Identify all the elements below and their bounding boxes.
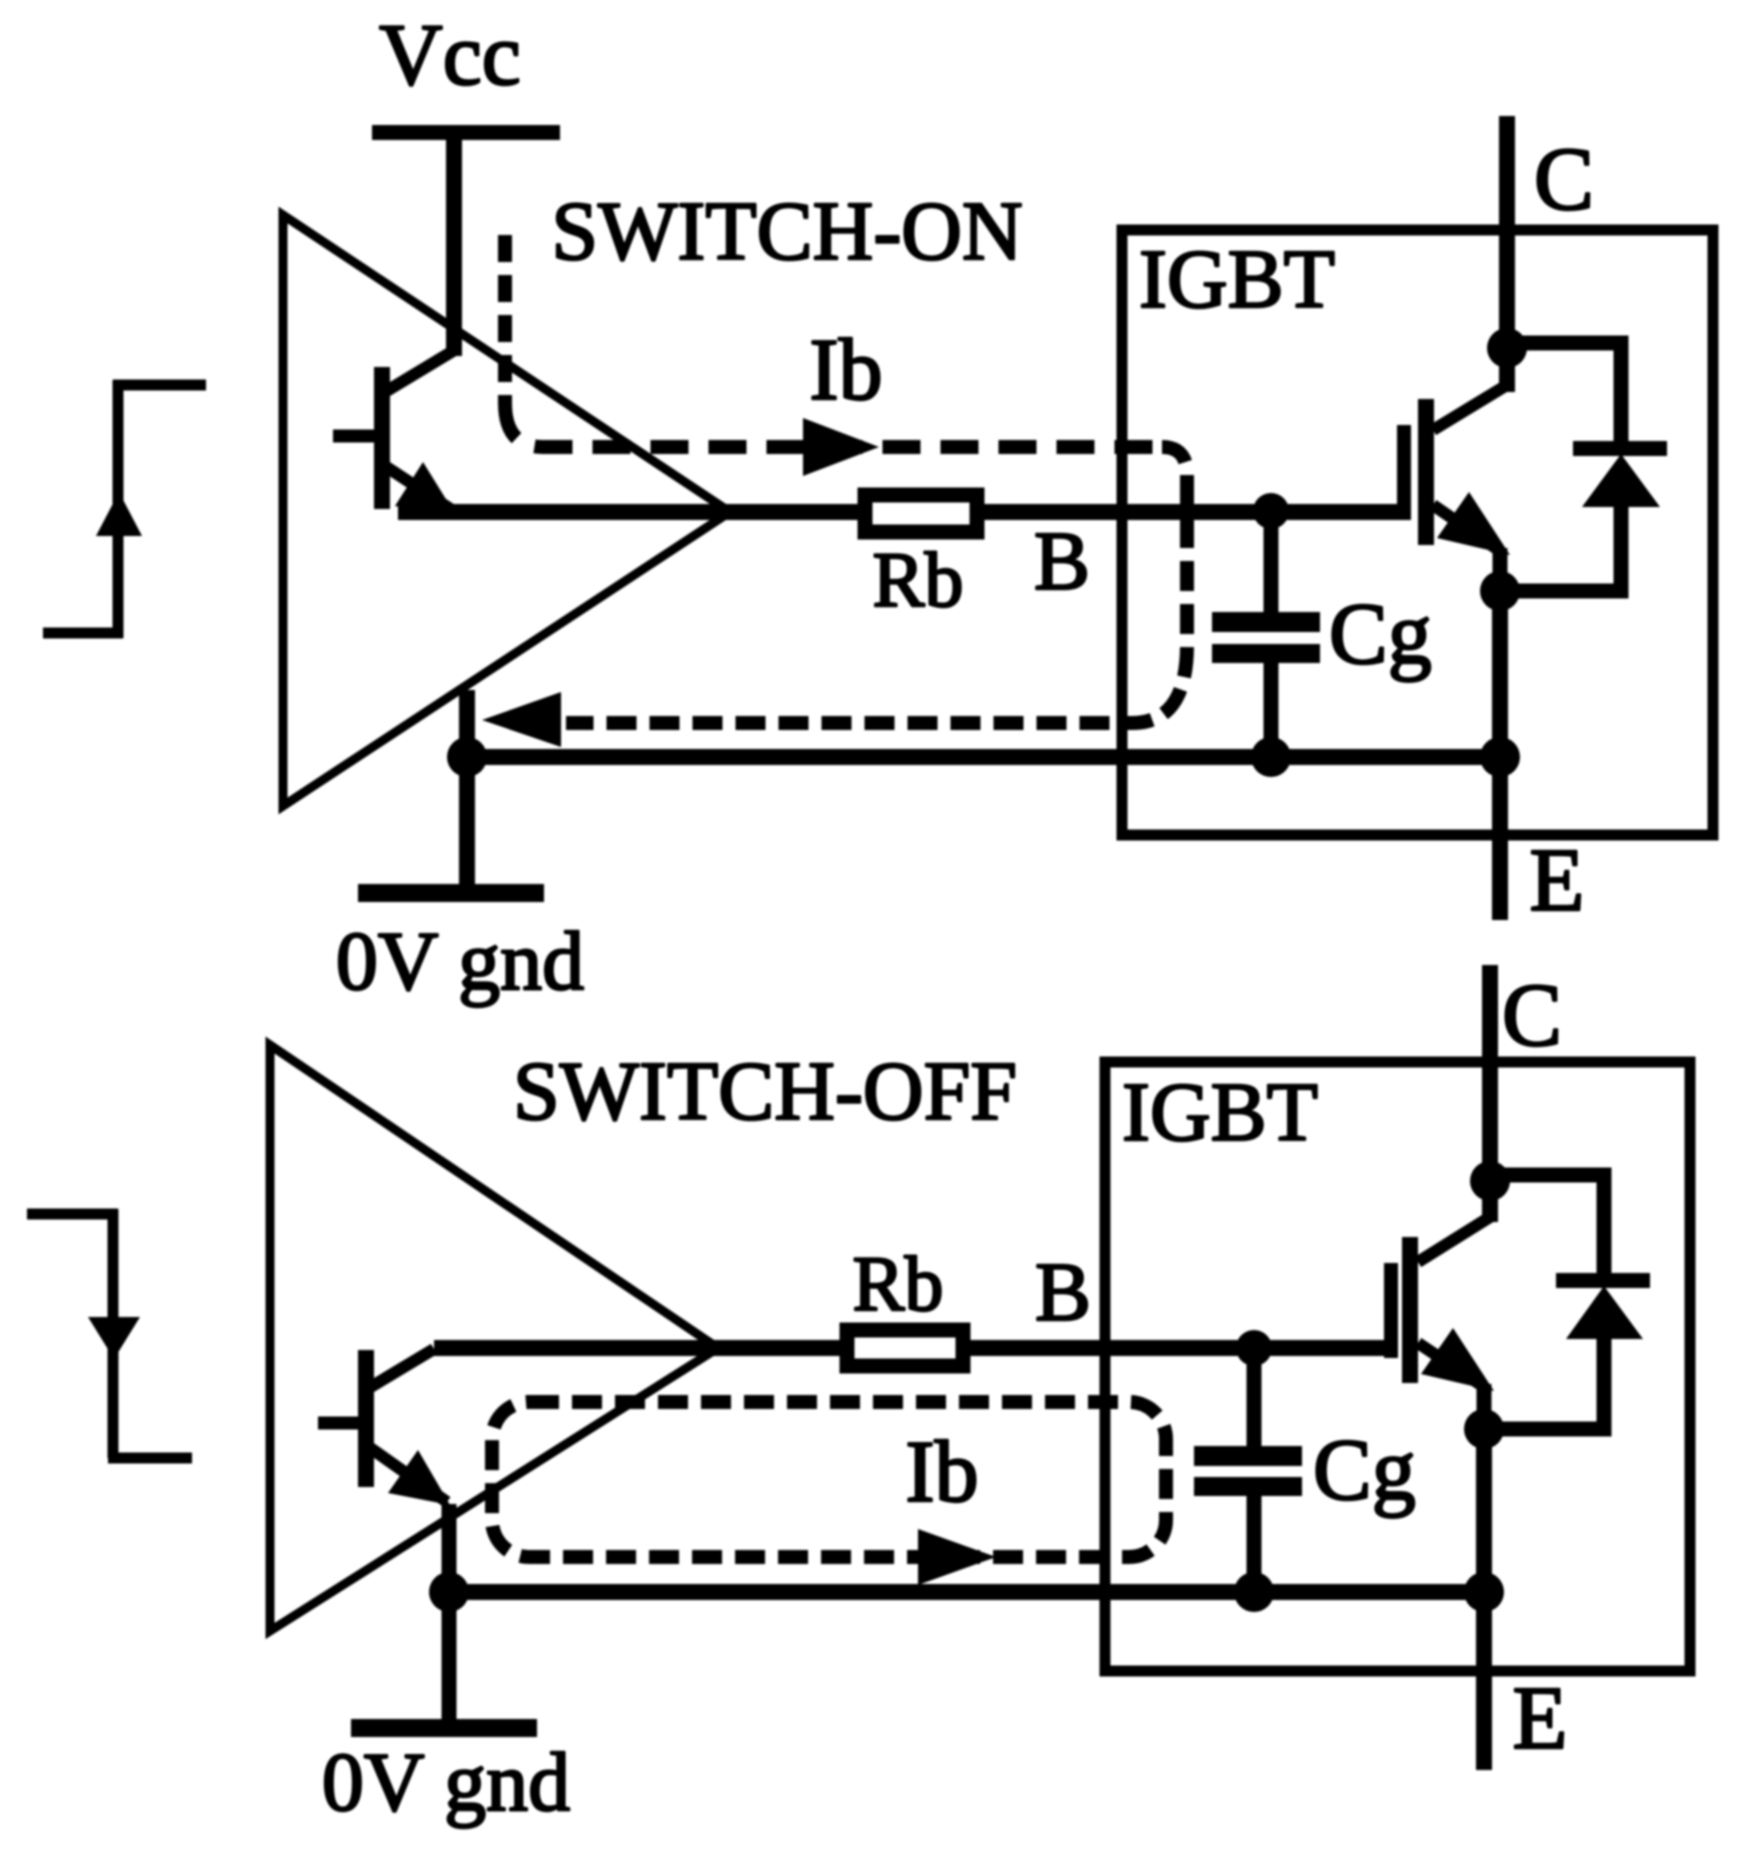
svg-text:Ib: Ib [809, 322, 882, 419]
svg-text:Cg: Cg [1313, 1422, 1416, 1519]
svg-text:IGBT: IGBT [1139, 233, 1335, 326]
svg-text:Rb: Rb [852, 1240, 943, 1327]
svg-text:SWITCH-ON: SWITCH-ON [551, 185, 1022, 278]
svg-text:Ib: Ib [905, 1424, 978, 1521]
svg-text:SWITCH-OFF: SWITCH-OFF [513, 1045, 1017, 1138]
svg-text:E: E [1530, 831, 1585, 930]
svg-text:Vcc: Vcc [379, 7, 521, 104]
svg-text:0V gnd: 0V gnd [322, 1736, 570, 1829]
svg-text:Cg: Cg [1329, 586, 1432, 683]
svg-text:IGBT: IGBT [1122, 1066, 1318, 1159]
svg-text:Rb: Rb [872, 536, 963, 623]
svg-text:0V gnd: 0V gnd [336, 915, 584, 1008]
svg-text:B: B [1034, 515, 1090, 608]
svg-text:B: B [1035, 1246, 1091, 1339]
svg-text:C: C [1502, 966, 1562, 1065]
svg-text:C: C [1534, 130, 1594, 229]
svg-text:E: E [1513, 1669, 1568, 1768]
